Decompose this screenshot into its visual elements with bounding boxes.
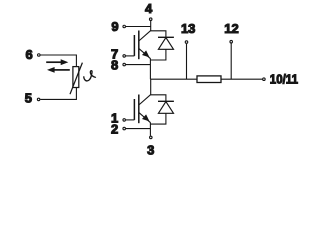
resistor R1 body [197,76,221,83]
svg-text:9: 9 [111,19,118,34]
wire diode D2 anode to emitter [150,113,166,124]
wire pin13 down [186,44,188,79]
diode D2 triangle [158,102,173,114]
wire collector to diode D1 [151,31,166,38]
wire thermistor bottom to pin5 [40,88,76,100]
wire pin6 to thermistor top [41,55,77,67]
wire pin2 to emitter [126,128,150,130]
wire T1 emitter vertical [149,58,151,79]
IGBT T2 emitter diagonal [139,112,151,122]
IGBT T2 emitter arrowhead [142,114,150,121]
wire T2 collector to diode D2 [151,95,166,102]
IGBT T1 emitter diagonal [139,48,151,58]
thermistor R_NTC body [73,67,79,88]
wire T2 collector vertical [150,79,152,95]
pin 2 terminal [123,127,126,130]
diode D1 cathode bar [158,36,174,38]
arrow left (isolation symbol) [47,67,70,73]
pin 1 terminal [123,119,126,122]
IGBT T2 collector diagonal [139,95,151,105]
wire pin4 collector vertical [150,21,152,31]
wire diode D1 anode to emitter [150,49,166,60]
IGBT T1 body bar [138,31,140,60]
svg-text:8: 8 [111,58,118,73]
thermistor diagonal stroke [70,63,82,95]
pin 10/11 terminal [263,78,266,81]
pin 6 terminal [38,54,41,57]
pin 4 terminal [149,18,152,21]
pin 3 terminal [150,136,153,139]
pin 5 terminal [37,98,40,101]
diode D1 triangle [158,38,173,50]
wire pin9 to collector [126,26,151,28]
wire pin12 down [230,43,232,79]
wire pin8 to emitter [126,64,150,66]
svg-text:13: 13 [181,21,195,36]
svg-text:10/11: 10/11 [270,71,298,86]
wire midpoint rail left [150,78,197,80]
IGBT T2 body bar [138,95,140,124]
thermistor theta symbol [84,71,96,81]
wire T2 emitter vertical to pin3 [149,122,151,135]
svg-text:5: 5 [25,91,32,106]
pin 8 terminal [123,63,126,66]
wire pin7 gate [126,55,134,57]
wire pin1 gate [126,119,134,121]
diode D2 cathode bar [158,100,174,102]
svg-text:6: 6 [25,47,32,62]
pin 7 terminal [123,55,126,58]
IGBT T2 gate bar [133,99,135,120]
pin 9 terminal [123,25,126,28]
pin 12 terminal [230,40,233,43]
IGBT T1 gate bar [133,35,135,56]
svg-text:12: 12 [224,21,238,36]
IGBT T1 emitter arrowhead [142,50,150,57]
arrow right (isolation symbol) [46,59,68,65]
IGBT T1 collector diagonal [139,31,151,41]
wire rail resistor to output [221,78,262,80]
pin 13 terminal [185,41,188,44]
svg-text:2: 2 [111,122,118,137]
svg-text:3: 3 [147,142,154,157]
svg-text:4: 4 [145,1,153,16]
